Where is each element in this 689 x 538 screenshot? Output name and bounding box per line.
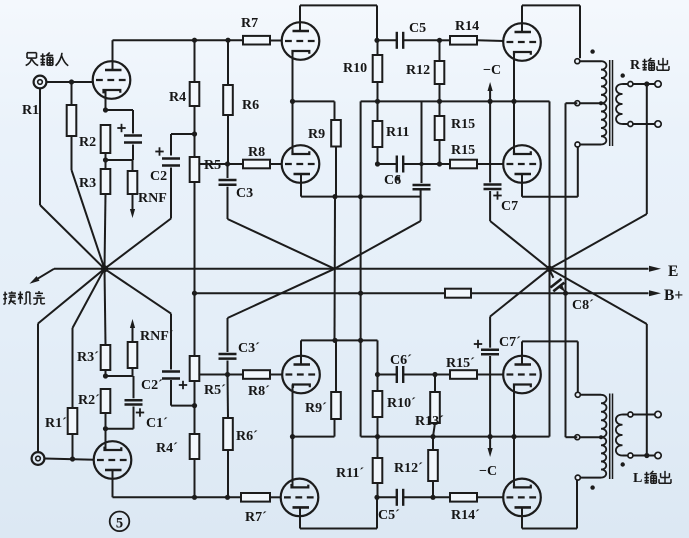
svg-text:−C: −C xyxy=(483,63,501,78)
svg-text:C5: C5 xyxy=(409,21,426,36)
triode splitter A (R channel top) xyxy=(282,22,320,60)
node B+ tap R xyxy=(563,291,568,296)
wire plate L lower to bottom edge rail xyxy=(521,516,523,529)
svg-text:R6´: R6´ xyxy=(236,429,258,444)
node cathode wire A xyxy=(290,99,295,104)
svg-text:C7: C7 xyxy=(501,199,518,214)
wire R15 to grid of output tube R lower xyxy=(477,163,504,165)
node jack/R1 junction xyxy=(69,79,74,84)
wire R output common down to right star xyxy=(646,87,648,215)
resistor R6' xyxy=(227,375,230,419)
svg-text:R11: R11 xyxy=(386,125,409,140)
svg-text:R6: R6 xyxy=(242,98,259,113)
phase dot primary R xyxy=(590,49,594,53)
svg-text:RNF´: RNF´ xyxy=(140,329,174,344)
capacitor C7' xyxy=(489,356,491,375)
phase dot secondary L xyxy=(621,462,625,466)
node -C arrow L xyxy=(488,434,493,439)
node -C arrow xyxy=(488,99,493,104)
node R10/R11 xyxy=(375,99,380,104)
svg-text:C2´: C2´ xyxy=(141,378,163,393)
wire to capacitor C1' xyxy=(106,428,134,430)
svg-text:R3´: R3´ xyxy=(77,350,99,365)
wire -C node down to R15 wire xyxy=(489,101,491,164)
node R12'/R13' xyxy=(430,434,435,439)
svg-text:R14´: R14´ xyxy=(451,508,480,523)
wire splitter A' plate up xyxy=(300,340,302,356)
resistor R9' xyxy=(331,392,341,419)
wire R8' to grid of splitter A' xyxy=(270,374,283,376)
node R11 bottom xyxy=(375,161,380,166)
resistor R11 xyxy=(377,101,379,121)
resistor R7' xyxy=(241,493,270,502)
transformer R core xyxy=(609,60,611,146)
wire R15' to grid of output tube L upper xyxy=(477,374,504,376)
svg-text:R7´: R7´ xyxy=(245,510,267,525)
capacitor C8' (from star to B+) xyxy=(550,270,554,278)
resistor R12 xyxy=(439,40,441,61)
wire R8 to grid of splitter tube B xyxy=(270,163,283,165)
wire cathode R lower xyxy=(513,101,515,146)
node R5/R8/C3 junction xyxy=(225,161,230,166)
input jack R (尺输入) xyxy=(34,76,47,89)
wire R9' up to crossing xyxy=(335,340,337,392)
svg-text:C5´: C5´ xyxy=(378,508,400,523)
wire R11 to C6 xyxy=(377,147,379,164)
wire screen rail (L channel) xyxy=(361,436,550,438)
wire R9 down through plate wire to middle crossing xyxy=(335,147,337,197)
svg-text:B+: B+ xyxy=(664,287,683,304)
ground line E xyxy=(54,268,649,270)
wire V1' cathode up xyxy=(105,429,107,448)
svg-text:C3´: C3´ xyxy=(238,341,260,356)
wire tap to C2' xyxy=(171,405,195,407)
capacitor C1' (electrolytic) xyxy=(125,399,143,402)
node B+ line start xyxy=(192,291,197,296)
resistor R1' xyxy=(72,434,74,459)
wire R14' to grid of output tube L lower xyxy=(477,496,504,498)
output tube L upper xyxy=(503,356,541,394)
svg-text:R15: R15 xyxy=(451,117,475,132)
svg-text:R12´: R12´ xyxy=(394,461,423,476)
wire to capacitor C1 xyxy=(106,109,134,111)
wire R10' to C6' wire xyxy=(377,417,379,437)
wire R11' up to screen rail L xyxy=(377,437,379,458)
wire R1' to ground star xyxy=(72,328,74,408)
node R4 top xyxy=(192,38,197,43)
wire plate L upper to transformer top xyxy=(521,341,523,356)
svg-text:R1: R1 xyxy=(22,103,39,118)
resistor R2 xyxy=(101,125,111,153)
wire C2 to ground star xyxy=(170,168,172,219)
svg-text:R13´: R13´ xyxy=(415,414,444,429)
svg-text:R7: R7 xyxy=(241,16,258,31)
output tube R lower xyxy=(503,145,541,183)
wire jack L up to ground star xyxy=(37,324,39,453)
node output cathodes L xyxy=(511,434,516,439)
resistor R5 xyxy=(190,157,200,182)
label 尺输入 xyxy=(27,52,36,54)
resistor R2' xyxy=(101,389,111,413)
wire R1 to ground star xyxy=(71,136,73,170)
resistor R12' xyxy=(428,450,438,481)
resistor R3 xyxy=(105,153,107,169)
capacitor C5' xyxy=(374,495,379,500)
node R2/R3 junction xyxy=(103,157,108,162)
wire R5 column down to bottom channel xyxy=(194,182,196,356)
resistor R5' xyxy=(190,356,200,381)
node output cathodes R xyxy=(511,99,516,104)
input jack L xyxy=(32,452,45,465)
wire C1' top xyxy=(133,376,135,398)
triode V1' (input, L channel) xyxy=(94,441,132,479)
capacitor C3' xyxy=(227,361,229,375)
capacitor C5 xyxy=(374,38,379,43)
resistor RNF (feedback) xyxy=(132,160,134,171)
wire plate to output transformer R top xyxy=(521,5,523,23)
label 接机壳 xyxy=(4,292,6,303)
node cathode junction xyxy=(103,107,108,112)
wire C2' to ground star xyxy=(170,314,172,370)
wire splitter A plate to top edge rail xyxy=(299,5,301,23)
resistor R14 xyxy=(450,36,477,45)
wire tap to C2 xyxy=(171,133,195,135)
svg-text:R11´: R11´ xyxy=(336,466,364,481)
resistor R15' horizontal xyxy=(450,370,477,379)
svg-text:5: 5 xyxy=(116,516,123,532)
node C5/R12 junction xyxy=(437,38,442,43)
wire R12' up xyxy=(432,437,434,450)
node cathode wire A' xyxy=(290,434,295,439)
svg-text:C2: C2 xyxy=(150,169,167,184)
resistor R11' xyxy=(373,458,383,483)
node C5'/R12' junction xyxy=(430,495,435,500)
capacitor C4 (to crossing) xyxy=(421,164,423,183)
svg-text:R5: R5 xyxy=(204,158,221,173)
resistor R15 horizontal xyxy=(450,160,477,169)
arrow -C (R channel) xyxy=(489,88,491,101)
wire R5 to R8 xyxy=(199,163,243,165)
arrow RNF' up xyxy=(132,326,134,342)
svg-text:C7´: C7´ xyxy=(499,335,521,350)
node cathode junction L xyxy=(103,426,108,431)
resistor R7 xyxy=(243,36,270,45)
wire x360 column down to B+ and bottom channel xyxy=(360,197,362,437)
R output terminals xyxy=(633,83,655,85)
L output terminals xyxy=(633,414,655,416)
output tube L lower xyxy=(503,479,541,517)
output tube R upper xyxy=(503,23,541,61)
svg-text:R4: R4 xyxy=(169,90,186,105)
resistor R14' xyxy=(450,493,477,502)
wire splitter B' plate to bottom edge xyxy=(299,515,301,529)
wire R6 down to R5/R8/C3 node xyxy=(227,115,229,164)
node R15/R15 junction xyxy=(437,161,442,166)
capacitor C7 xyxy=(489,164,491,183)
chassis arrow 接机壳 xyxy=(34,269,55,281)
wire L output common up to right star xyxy=(646,324,648,453)
transformer L core xyxy=(609,394,611,480)
capacitor C1 (electrolytic, unlabeled) xyxy=(124,134,142,137)
wire -C node up to R15' wire xyxy=(489,375,491,437)
wire R5' to R8' xyxy=(199,374,243,376)
wire R14 to grid of output tube R upper xyxy=(477,39,504,42)
ground star left (multi-wire junction) xyxy=(101,265,108,272)
capacitor C6' xyxy=(378,374,397,376)
triode splitter B' (L channel) xyxy=(281,479,319,517)
svg-text:R2: R2 xyxy=(79,135,96,150)
svg-text:RNF: RNF xyxy=(138,191,167,206)
svg-text:C8´: C8´ xyxy=(572,298,594,313)
svg-text:R4´: R4´ xyxy=(156,441,178,456)
node R11'/R10' xyxy=(375,434,380,439)
svg-text:R14: R14 xyxy=(455,19,479,34)
wire cathode node to R9 column xyxy=(293,100,335,102)
resistor R10' xyxy=(373,391,383,417)
resistor R1 xyxy=(71,82,73,105)
node plate wire / x360 column xyxy=(358,194,363,199)
resistor R15 vertical xyxy=(439,101,441,116)
triode splitter B (R channel, inverted) xyxy=(282,145,320,183)
mark circled 5 xyxy=(110,512,130,532)
phase dot primary L xyxy=(590,485,594,489)
wire junction to RNF' resistor xyxy=(106,375,133,377)
node B+ / x360 xyxy=(358,291,363,296)
output transformer R primary xyxy=(575,59,580,64)
svg-text:C1´: C1´ xyxy=(146,416,168,431)
svg-text:R10: R10 xyxy=(343,61,367,76)
svg-text:R: R xyxy=(630,58,641,73)
svg-text:R9´: R9´ xyxy=(305,401,327,416)
resistor R8 xyxy=(243,160,270,169)
capacitor C2 (electrolytic) xyxy=(162,157,180,160)
arrow RNF down xyxy=(132,194,134,211)
resistor R8' xyxy=(243,370,270,379)
svg-text:R15: R15 xyxy=(451,143,475,158)
svg-text:R8´: R8´ xyxy=(248,384,270,399)
wire bottom grid rail: R7' wire xyxy=(113,496,242,498)
node R13' top xyxy=(432,372,437,377)
svg-text:E: E xyxy=(668,263,678,280)
wire R12 to screen rail xyxy=(439,84,441,101)
wire R7' to grid of splitter B' xyxy=(270,496,281,498)
svg-text:R3: R3 xyxy=(79,176,96,191)
svg-text:R15´: R15´ xyxy=(446,356,475,371)
resistor R9 xyxy=(331,120,341,147)
wire R7 to grid of splitter tube A xyxy=(270,40,282,42)
wire plate rail down to R10' node xyxy=(377,340,379,374)
resistor on B+ line (unlabeled) xyxy=(445,289,471,298)
resistor R3' xyxy=(101,345,111,370)
svg-text:L: L xyxy=(633,471,642,486)
svg-text:R9: R9 xyxy=(308,127,325,142)
node jack/R1' junction xyxy=(70,456,75,461)
arrow -C (L channel) xyxy=(489,437,491,450)
svg-text:C3: C3 xyxy=(236,186,253,201)
node R4' bottom xyxy=(192,495,197,500)
wire C7' to right star xyxy=(489,317,491,348)
wire screen rail corner to right star column xyxy=(549,101,551,436)
wire center tap R to B+ line xyxy=(566,102,578,104)
resistor R13' xyxy=(430,392,440,423)
resistor R4 xyxy=(194,40,196,82)
triode splitter A' (L channel) xyxy=(282,356,320,394)
wire cathode node to R9' column xyxy=(293,436,335,438)
phase dot secondary R xyxy=(621,73,625,77)
node R5'/R8'/C3' junction xyxy=(225,372,230,377)
wire R3' to ground star xyxy=(105,269,106,345)
svg-text:C6´: C6´ xyxy=(390,353,412,368)
output transformer L secondary xyxy=(616,415,623,456)
wire junction to RNF resistor xyxy=(106,159,133,161)
output transformer L primary xyxy=(575,392,580,397)
svg-text:R8: R8 xyxy=(248,145,265,160)
triode V1 (input, R channel) xyxy=(93,61,131,99)
svg-text:R12: R12 xyxy=(406,63,430,78)
wire cathode R upper xyxy=(513,54,515,101)
resistor RNF' (feedback) xyxy=(128,342,138,368)
wire R3 to ground star xyxy=(105,194,106,269)
wire screen rail (R channel) xyxy=(361,100,550,102)
wire cathode L lower xyxy=(513,437,515,479)
B+ line xyxy=(195,292,649,294)
node R6' bottom xyxy=(225,495,230,500)
resistor R10 xyxy=(377,40,379,55)
wire jack R to grid of V1 xyxy=(47,81,94,83)
node C2 tap xyxy=(192,131,197,136)
wire plate R lower to transformer bottom xyxy=(521,182,523,197)
svg-text:R2´: R2´ xyxy=(78,393,100,408)
capacitor C6 xyxy=(378,163,397,165)
wire jack R down to ground star xyxy=(39,89,41,206)
node R2'/R3' junction xyxy=(103,373,108,378)
wire cathode L upper xyxy=(513,387,515,437)
wire R4-R5 with C2 tap xyxy=(194,106,196,157)
resistor R4' xyxy=(190,434,200,459)
wire cathode link splitter A'-B' xyxy=(292,393,294,480)
wire V1' plate down to rail xyxy=(112,479,114,498)
wire C3' to middle crossing xyxy=(227,318,229,352)
wire cathode link splitter A-B xyxy=(292,60,294,147)
wire R4' to bottom rail xyxy=(194,459,196,497)
wire C3 to middle crossing xyxy=(227,187,229,219)
node R12/R15 xyxy=(437,99,442,104)
wire splitter B plate xyxy=(300,182,302,197)
node C2' tap xyxy=(192,403,197,408)
svg-text:R5´: R5´ xyxy=(204,383,226,398)
node R6 top xyxy=(225,38,230,43)
wire jack L to grid of V1' xyxy=(45,459,95,460)
wire C4 to middle crossing xyxy=(335,221,421,269)
node R10' top xyxy=(375,372,380,377)
wire V1 plate to top rail xyxy=(112,40,114,62)
resistor R6 xyxy=(227,40,229,85)
wire screen rail to C6 node xyxy=(421,101,423,164)
right star node xyxy=(546,266,552,272)
wire R5'-R4' with C2' tap xyxy=(194,381,196,434)
capacitor C2' (electrolytic) xyxy=(162,370,180,373)
wire R10 to screen rail xyxy=(377,82,379,101)
wire V1 cathode to R2 xyxy=(105,92,107,110)
wire center tap L to B+ line xyxy=(566,436,578,438)
wire C7 to right star xyxy=(489,191,491,221)
wire R6' to bottom rail xyxy=(227,450,229,497)
wire C1 bottom to feedback node xyxy=(132,145,134,161)
output transformer R secondary xyxy=(616,84,622,124)
svg-text:R10´: R10´ xyxy=(387,396,416,411)
svg-text:R1´: R1´ xyxy=(45,416,67,431)
svg-text:−C: −C xyxy=(479,464,497,479)
node plate wire / x360 column (L) xyxy=(358,338,363,343)
capacitor C3 xyxy=(227,164,229,178)
